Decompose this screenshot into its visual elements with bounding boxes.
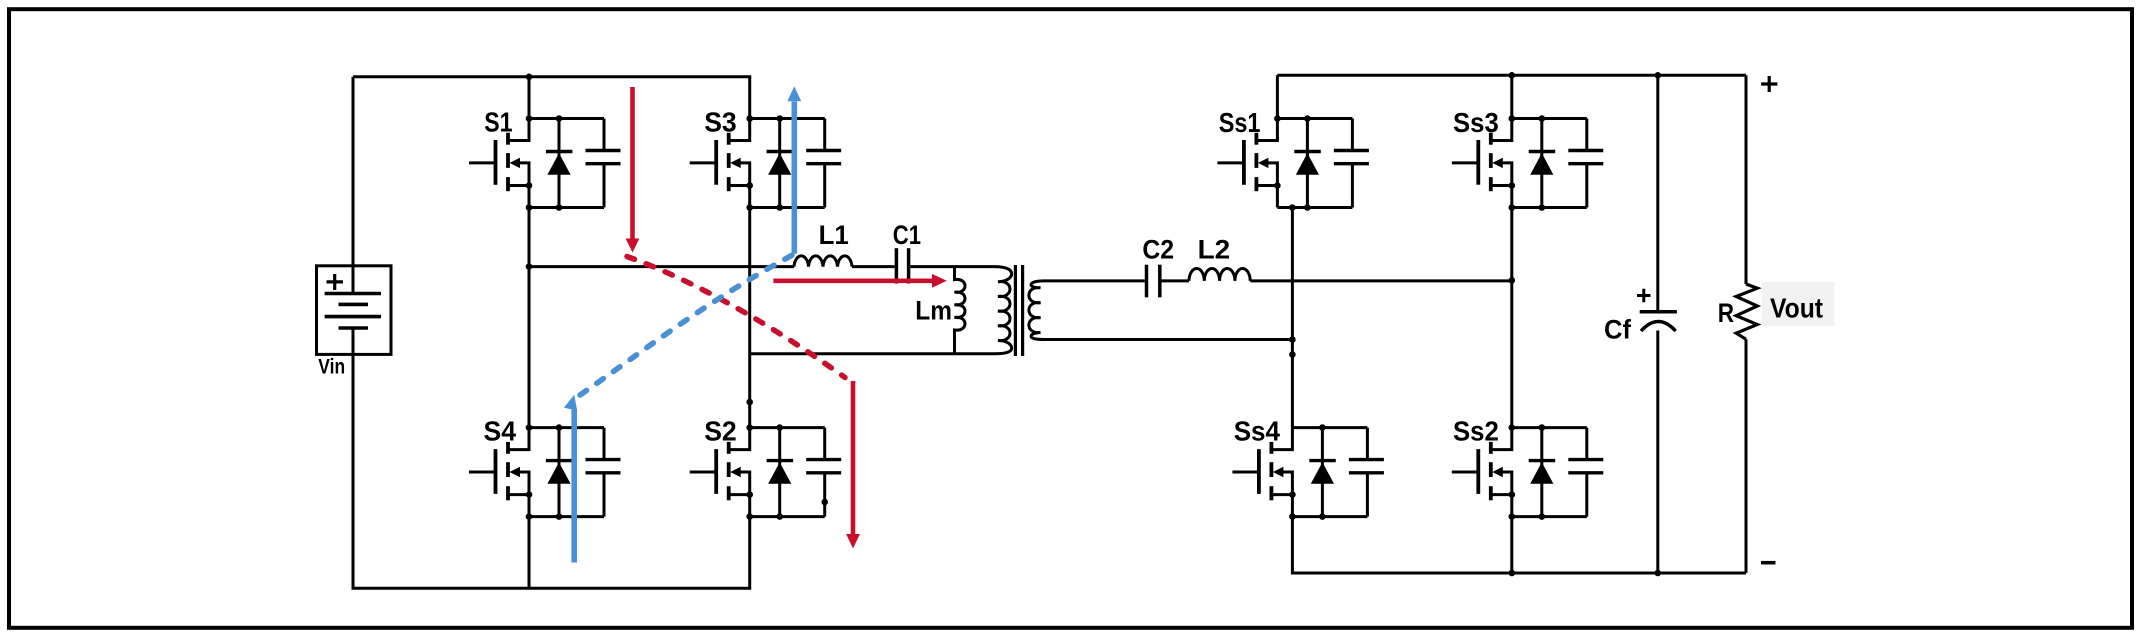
- node S4 diode bottom junction: [556, 513, 563, 520]
- inductor L2: [1189, 268, 1250, 280]
- wire cell Ss4 bottom rail: [1292, 515, 1367, 518]
- svg-text:Ss3: Ss3: [1453, 107, 1499, 138]
- diode (body diode of Ss3): [1529, 119, 1556, 208]
- node node B2 junction: [1509, 277, 1516, 284]
- diode (body diode of Ss4): [1309, 428, 1336, 517]
- svg-text:L1: L1: [819, 220, 849, 250]
- capacitor (parallel cap of Ss4): [1349, 428, 1384, 517]
- node Ss4 source junction: [1289, 513, 1296, 520]
- diode (body diode of S3): [767, 119, 794, 208]
- diode (body diode of Ss1): [1294, 119, 1321, 208]
- svg-text:L2: L2: [1198, 235, 1231, 265]
- node Ss3 body-source tie: [1509, 182, 1516, 189]
- current arrow red dashed (crossover path): [627, 257, 845, 378]
- node top rail / S1 leg: [526, 74, 533, 81]
- node Ss3 diode bottom junction: [1539, 204, 1546, 211]
- wire C2 to L2: [1162, 279, 1190, 282]
- node S1 diode bottom junction: [556, 204, 563, 211]
- diode (body diode of S1): [546, 119, 573, 208]
- node S2 source junction: [746, 513, 753, 520]
- svg-text:R: R: [1718, 298, 1734, 328]
- svg-text:Vin: Vin: [318, 355, 345, 378]
- wire S2 source to bottom rail: [748, 517, 751, 589]
- svg-text:Ss2: Ss2: [1453, 416, 1499, 447]
- node top rail / Ss3 leg: [1509, 72, 1516, 79]
- wire right bottom rail: [1292, 517, 1746, 573]
- wire Ss3-Ss2 leg (node B2): [1510, 208, 1513, 428]
- diode (body diode of Ss2): [1529, 428, 1556, 517]
- wire secondary bottom to node A2: [1045, 338, 1293, 341]
- current arrow red solid (S1 leg down): [626, 87, 640, 253]
- node Ss2 diode bottom junction: [1539, 513, 1546, 520]
- wire Ss1 drain riser: [1276, 75, 1279, 118]
- wire cell Ss1 bottom rail: [1277, 206, 1352, 209]
- wire cell S3 bottom rail: [750, 206, 825, 209]
- wire C1 to transformer primary: [910, 265, 994, 268]
- node S4 body-source tie: [526, 491, 533, 498]
- capacitor (parallel cap of S4): [586, 428, 621, 517]
- node top rail / Cf: [1655, 72, 1662, 79]
- node Ss3 source junction: [1509, 204, 1516, 211]
- svg-text:Vout: Vout: [1770, 293, 1823, 324]
- resistor R: [1736, 75, 1757, 573]
- transistor Ss2 (MOSFET): [1452, 428, 1512, 517]
- node bottom rail / Ss2: [1509, 570, 1516, 577]
- node node B stub: [746, 399, 753, 406]
- wire S4 source to bottom rail: [528, 517, 531, 589]
- node S2 body-source tie: [746, 491, 753, 498]
- node S1 drain junction: [526, 115, 533, 122]
- node Ss1 body-source tie: [1274, 182, 1281, 189]
- wire cell Ss2 bottom rail: [1512, 515, 1587, 518]
- capacitor (parallel cap of Ss2): [1568, 428, 1603, 517]
- node S2 cap branch: [821, 499, 828, 506]
- diode (body diode of S4): [546, 428, 573, 517]
- capacitor Cf: [1637, 75, 1677, 573]
- wire node A to L1: [529, 265, 794, 268]
- wire cell Ss2 top rail: [1512, 426, 1587, 429]
- node Ss4 body-source tie: [1289, 491, 1296, 498]
- label - (output negative): [1761, 561, 1776, 565]
- wire cell S4 bottom rail: [529, 515, 604, 518]
- wire cell S2 bottom rail: [750, 515, 825, 518]
- transistor Ss4 (MOSFET): [1232, 428, 1292, 517]
- node node A2 stub: [1289, 351, 1296, 358]
- wire cell Ss3 bottom rail: [1512, 206, 1587, 209]
- wire Ss3 drain riser: [1510, 75, 1513, 118]
- wire S1-S4 leg (node A): [528, 208, 531, 428]
- wire S3 drain riser: [748, 77, 751, 119]
- node Ss4 diode bottom junction: [1319, 513, 1326, 520]
- svg-text:Lm: Lm: [915, 296, 952, 326]
- wire cell S3 top rail: [750, 117, 825, 120]
- transformer primary winding: [994, 267, 1012, 354]
- node Ss2 source junction: [1509, 513, 1516, 520]
- wire Ss2 source drop: [1510, 517, 1513, 573]
- current arrow blue solid (S4 leg up): [564, 393, 581, 562]
- capacitor (parallel cap of S2): [806, 428, 841, 517]
- wire left bottom rail: [353, 354, 751, 588]
- node bottom rail / Cf: [1655, 570, 1662, 577]
- node S2 drain junction: [746, 424, 753, 431]
- svg-text:S4: S4: [484, 416, 517, 447]
- node S1 source junction: [526, 204, 533, 211]
- wire right top rail: [1277, 74, 1746, 77]
- node S3 diode bottom junction: [776, 204, 783, 211]
- node Ss1 diode top junction: [1304, 115, 1311, 122]
- inductor Lm: [955, 267, 966, 354]
- transistor S3 (MOSFET): [690, 119, 750, 208]
- svg-text:S3: S3: [704, 107, 737, 138]
- battery Vin: [317, 266, 392, 355]
- svg-text:Ss4: Ss4: [1234, 416, 1281, 447]
- node S4 drain junction: [526, 424, 533, 431]
- node S4 diode top junction: [556, 424, 563, 431]
- transformer secondary winding: [1029, 281, 1045, 340]
- capacitor C1: [896, 248, 908, 283]
- wire cell S1 bottom rail: [529, 206, 604, 209]
- svg-text:Ss1: Ss1: [1219, 107, 1261, 138]
- capacitor (parallel cap of Ss1): [1334, 119, 1369, 208]
- capacitor (parallel cap of Ss3): [1568, 119, 1603, 208]
- wire S3-S2 leg (node B): [748, 208, 751, 428]
- wire battery positive lead: [352, 77, 355, 266]
- node Ss1 drain junction: [1274, 115, 1281, 122]
- wire cell S2 top rail: [750, 426, 825, 429]
- inductor L1: [794, 256, 852, 267]
- node S3 diode top junction: [776, 115, 783, 122]
- node S3 body-source tie: [746, 182, 753, 189]
- current arrow red solid (S2 leg down): [846, 381, 860, 549]
- transistor Ss3 (MOSFET): [1452, 119, 1512, 208]
- node S3 drain junction: [746, 115, 753, 122]
- wire cell Ss3 top rail: [1512, 117, 1587, 120]
- current arrow red horizontal (resonant current i1): [773, 274, 946, 288]
- wire cell S1 top rail: [529, 117, 604, 120]
- svg-text:Cf: Cf: [1604, 315, 1632, 345]
- wire left top rail: [353, 75, 751, 78]
- label Vout: [1762, 282, 1835, 326]
- current arrow blue solid (S3 leg up): [787, 86, 801, 254]
- node S1 diode top junction: [556, 115, 563, 122]
- wire cell Ss4 top rail: [1292, 426, 1367, 429]
- node Ss1 source exit junction: [1289, 204, 1296, 211]
- svg-text:S2: S2: [704, 416, 737, 447]
- label + (output positive): [1761, 76, 1777, 92]
- diode (body diode of S2): [767, 428, 794, 517]
- node Ss2 drain junction: [1509, 424, 1516, 431]
- svg-text:C2: C2: [1142, 235, 1174, 265]
- wire transformer primary bottom return: [750, 352, 994, 355]
- transistor Ss1 (MOSFET): [1217, 119, 1277, 208]
- wire secondary top to C2: [1045, 279, 1145, 282]
- node Ss4 diode top junction: [1319, 424, 1326, 431]
- svg-text:S1: S1: [484, 107, 512, 138]
- wire L2 to node B2: [1250, 279, 1512, 282]
- wire Ss1-Ss4 leg (node A2): [1291, 208, 1294, 428]
- svg-text:C1: C1: [893, 220, 921, 250]
- node Ss2 body-source tie: [1509, 491, 1516, 498]
- current arrow blue dashed (crossover path): [580, 254, 794, 395]
- wire cell S4 top rail: [529, 426, 604, 429]
- capacitor (parallel cap of S3): [806, 119, 841, 208]
- transistor S4 (MOSFET): [469, 428, 529, 517]
- node Ss1 diode bottom junction: [1304, 204, 1311, 211]
- wire L1 to C1: [852, 265, 895, 268]
- node S2 diode top junction: [776, 424, 783, 431]
- node Ss2 diode top junction: [1539, 424, 1546, 431]
- capacitor C2: [1147, 265, 1160, 298]
- node S3 source junction: [746, 204, 753, 211]
- capacitor (parallel cap of S1): [586, 119, 621, 208]
- node S2 diode bottom junction: [776, 513, 783, 520]
- transistor S2 (MOSFET): [690, 428, 750, 517]
- node S4 source junction: [526, 513, 533, 520]
- node S1 body-source tie: [526, 182, 533, 189]
- node Ss3 drain junction: [1509, 115, 1516, 122]
- transistor S1 (MOSFET): [469, 119, 529, 208]
- node node A mid-rail junction: [526, 263, 533, 270]
- wire S1 drain riser: [528, 77, 531, 119]
- node Ss3 diode top junction: [1539, 115, 1546, 122]
- transformer core: [1015, 265, 1022, 356]
- node node A2 junction: [1289, 336, 1296, 343]
- wire cell Ss1 top rail: [1277, 117, 1352, 120]
